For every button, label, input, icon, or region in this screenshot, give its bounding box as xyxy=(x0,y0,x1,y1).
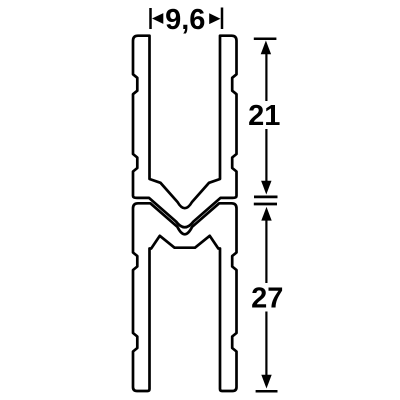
arrow 27 up xyxy=(261,207,271,221)
upper profile xyxy=(133,36,237,228)
arrow 9,6 left xyxy=(152,13,163,24)
break marks xyxy=(254,195,278,198)
dim 21 shaft xyxy=(265,47,267,101)
dim 27 bottom tick xyxy=(256,390,278,393)
dim 9,6 extension ticks xyxy=(149,8,152,29)
dim 21 top tick xyxy=(254,37,277,40)
arrow 21 up xyxy=(261,41,271,55)
dim 27 shaft xyxy=(265,213,267,283)
arrow 27 down xyxy=(261,375,271,389)
lower profile xyxy=(133,203,237,391)
svg-text:21: 21 xyxy=(248,100,280,132)
svg-text:9,6: 9,6 xyxy=(165,4,205,36)
arrow 9,6 right xyxy=(209,13,220,24)
dim 9,6 right tick xyxy=(221,8,224,30)
svg-text:27: 27 xyxy=(251,283,283,315)
arrow 21 down xyxy=(261,181,271,195)
